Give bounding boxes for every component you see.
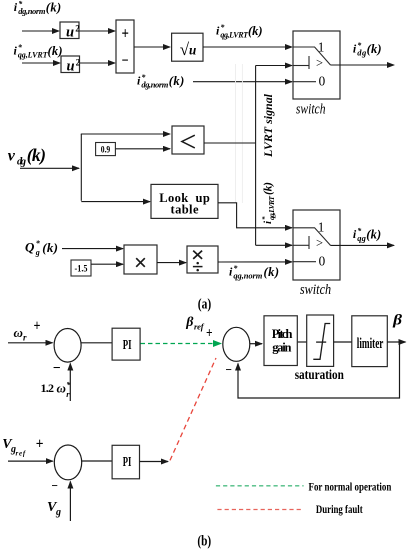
- svg-text:−: −: [226, 362, 233, 377]
- svg-text:-1.5: -1.5: [75, 263, 88, 273]
- wire LVRT signal vertical: [255, 66, 257, 246]
- svg-text:2: 2: [75, 23, 80, 33]
- wire U2a to summer: [79, 30, 115, 32]
- summer block +/-: [116, 20, 134, 73]
- svg-text:(k): (k): [42, 240, 58, 255]
- svg-text:(k): (k): [264, 265, 280, 279]
- node label Q*g(k): [25, 239, 58, 257]
- wire PI2 output: [140, 461, 169, 463]
- switch SW2 control tick: [293, 244, 309, 246]
- svg-text:dg: dg: [357, 47, 367, 57]
- wire LVRT to switch2 control: [256, 244, 292, 246]
- summer circle S2: [223, 327, 250, 361]
- svg-text:>: >: [316, 236, 323, 250]
- svg-text:For normal operation: For normal operation: [309, 479, 392, 493]
- wire input to U2a: [22, 30, 59, 32]
- wire Q*g to multiplier: [62, 248, 123, 250]
- node label v_dg(k): [8, 145, 46, 168]
- net label i*qg,LVRT(k) (rotated): [261, 182, 276, 224]
- node label i*qg,LVRT(k) above wire to switch1: [216, 23, 263, 39]
- wire U2b to summer: [80, 62, 116, 64]
- wire i*dg,norm to switch1 input 0: [193, 81, 292, 83]
- wire divider to switch2 input 0: [218, 261, 292, 263]
- comparator block <: [172, 126, 204, 154]
- svg-text:ω: ω: [14, 325, 23, 340]
- wire switch1 output i*dg(k): [331, 64, 395, 66]
- node label beta_ref: [185, 315, 205, 332]
- svg-text:PI: PI: [123, 455, 132, 470]
- wire comparator output to LVRT vertical: [204, 142, 256, 144]
- svg-text:(k): (k): [263, 182, 275, 195]
- block constant 0.9: [96, 143, 116, 156]
- svg-text:u: u: [66, 25, 74, 41]
- wire 1.2wr input arrow: [69, 364, 71, 402]
- svg-text:gain: gain: [272, 340, 291, 354]
- wire -1.5 to multiplier: [91, 263, 123, 265]
- wire multiplier to divider: [157, 262, 186, 264]
- faint ghost guide lines: [235, 64, 237, 203]
- svg-text:ref: ref: [16, 450, 26, 458]
- svg-text:Pitch: Pitch: [272, 327, 293, 341]
- svg-text:−: −: [52, 478, 59, 493]
- switch SW1 zero stub: [293, 81, 316, 83]
- wire pitch gain to saturation: [298, 341, 307, 343]
- wire Vg input arrow: [69, 482, 71, 522]
- svg-text:β: β: [392, 313, 402, 329]
- svg-text:(k): (k): [248, 24, 263, 38]
- block constant -1.5: [71, 260, 91, 276]
- switch SW1 control tick: [293, 65, 309, 67]
- wire branch to comparator top: [81, 133, 170, 135]
- svg-text:qg,norm: qg,norm: [233, 270, 262, 280]
- svg-text:+: +: [122, 23, 129, 42]
- svg-text:(a): (a): [198, 297, 212, 313]
- wire input to U2b: [22, 62, 60, 64]
- svg-text:dg,norm: dg,norm: [141, 80, 168, 90]
- svg-text:qg,LVRT: qg,LVRT: [220, 30, 249, 39]
- node label i*qg(k): [353, 226, 381, 243]
- node label Vg_ref: [2, 437, 26, 458]
- svg-text:0.9: 0.9: [101, 144, 111, 154]
- block X over divide: [187, 246, 218, 273]
- block PI #2: [112, 445, 139, 479]
- svg-text:g: g: [55, 507, 61, 518]
- wire v_dg input: [20, 167, 79, 169]
- wire sqrt to switch1 input 1: [203, 46, 292, 48]
- svg-text:PI: PI: [123, 338, 132, 353]
- node label i*qg,norm(k): [229, 264, 279, 281]
- svg-text:Q: Q: [25, 240, 35, 255]
- svg-text:(b): (b): [197, 534, 211, 550]
- svg-text:(k): (k): [169, 74, 185, 88]
- wire 0.9 to comparator: [115, 148, 170, 150]
- svg-text:u: u: [189, 43, 197, 58]
- svg-text:(k): (k): [27, 145, 46, 165]
- svg-text:−: −: [122, 53, 129, 70]
- svg-text:2: 2: [76, 57, 81, 67]
- svg-text:u: u: [67, 59, 75, 75]
- node label i*dg,norm(k) top-left: [14, 0, 61, 16]
- block Look up table: [151, 184, 218, 218]
- wire summer3 to PI2: [82, 460, 112, 462]
- legend green dashed line: [216, 485, 304, 487]
- switch SW1 lever: [293, 47, 331, 65]
- svg-text:+: +: [36, 436, 44, 453]
- svg-text:β: β: [185, 315, 194, 330]
- block limiter: [352, 316, 388, 367]
- svg-text:qg,LVRT: qg,LVRT: [18, 50, 49, 59]
- svg-text:0: 0: [319, 253, 326, 268]
- block u^2 #2: [61, 56, 81, 75]
- svg-text:(k): (k): [46, 1, 62, 15]
- wire feedback loop: [238, 342, 400, 398]
- node label 1.2 omega_r*: [41, 380, 72, 399]
- svg-text:LVRT signal: LVRT signal: [261, 93, 275, 158]
- switch SW2 lever: [293, 228, 331, 246]
- wire omega_r input: [8, 342, 53, 344]
- wire saturation to limiter: [334, 341, 352, 343]
- svg-text:0: 0: [319, 74, 326, 89]
- svg-text:−: −: [53, 360, 61, 376]
- svg-text:>: >: [316, 56, 323, 70]
- summer circle S3: [54, 445, 81, 480]
- svg-text:dg: dg: [17, 156, 26, 167]
- wire red dashed PI2 to summer2: [170, 358, 216, 460]
- svg-text:qg,LVRT: qg,LVRT: [267, 196, 276, 220]
- svg-text:+: +: [206, 326, 213, 342]
- node label Vg: [47, 500, 61, 518]
- svg-text:switch: switch: [296, 101, 326, 117]
- svg-text:v: v: [8, 148, 16, 165]
- block Pitch gain: [264, 316, 297, 366]
- svg-text:(k): (k): [367, 42, 382, 56]
- block sqrt(u): [172, 33, 203, 61]
- legend red dashed line: [217, 509, 301, 511]
- block u^2 #1: [60, 22, 80, 41]
- block saturation: [307, 315, 334, 366]
- block multiplier X: [124, 245, 157, 274]
- wire summer to sqrt: [134, 46, 170, 48]
- svg-text:+: +: [34, 318, 41, 335]
- svg-text:limiter: limiter: [357, 336, 384, 352]
- svg-text:(k): (k): [366, 227, 381, 241]
- wire v_dg branch vertical: [80, 134, 82, 201]
- svg-text:(k): (k): [48, 44, 63, 58]
- node label i*dg(k): [353, 41, 382, 58]
- summer circle S1: [54, 329, 81, 363]
- svg-text:r: r: [23, 333, 27, 343]
- node label i*qg,LVRT(k) left: [14, 43, 63, 59]
- node label omega_r: [14, 325, 28, 343]
- block PI #1: [112, 328, 140, 360]
- wire summer1 to PI1: [81, 342, 112, 344]
- wire green dashed PI1 to summer2: [141, 343, 222, 345]
- wire LVRT to switch1 control: [256, 65, 292, 67]
- svg-text:saturation: saturation: [295, 367, 345, 382]
- wire v_dg branch to lookup: [81, 201, 150, 203]
- svg-text:switch: switch: [300, 282, 331, 298]
- wire limiter output beta: [387, 341, 405, 343]
- svg-text:dg,norm: dg,norm: [18, 6, 46, 16]
- wire switch2 output i*qg(k): [331, 244, 395, 246]
- svg-text:ref: ref: [194, 322, 205, 332]
- switch SW1 box: [293, 31, 340, 99]
- node label i*dg,norm(k) mid: [137, 73, 184, 90]
- switch SW2 zero stub: [293, 261, 316, 263]
- svg-text:table: table: [171, 202, 199, 216]
- wire lookup output to switch2 input 1: [218, 203, 292, 228]
- svg-text:g: g: [35, 248, 40, 257]
- svg-text:ω: ω: [57, 380, 66, 395]
- wire summer2 to pitch gain: [250, 343, 262, 345]
- svg-text:1.2: 1.2: [41, 381, 55, 395]
- wire Vg_ref input: [8, 460, 53, 462]
- svg-text:During fault: During fault: [316, 502, 363, 516]
- switch SW2 box: [293, 210, 340, 280]
